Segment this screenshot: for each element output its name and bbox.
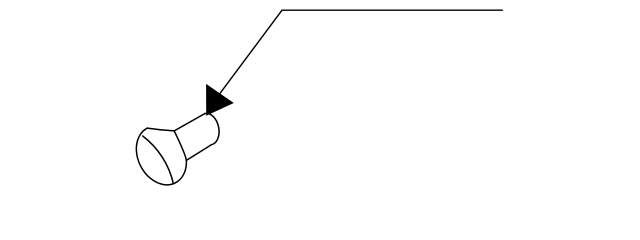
shank rounded tip arc — [205, 113, 219, 144]
leader line horizontal segment — [282, 9, 502, 11]
leader line diagonal segment — [220, 10, 282, 93]
shank bottom edge — [186, 145, 211, 161]
screw head top silhouette edge — [147, 128, 174, 131]
shank top edge — [174, 114, 205, 131]
screw head face ellipse outline — [136, 128, 186, 185]
arrowhead — [206, 84, 234, 116]
screw head back edge — [174, 131, 186, 160]
head face dome arc (slot line) — [143, 136, 174, 184]
